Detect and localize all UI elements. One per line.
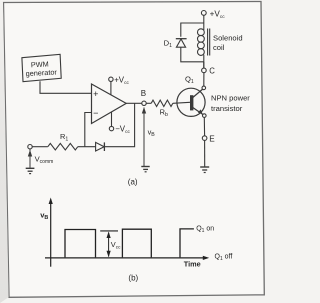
node E terminal [202, 134, 215, 143]
svg-text:Time: Time [184, 260, 201, 269]
solenoid coil L1 [198, 29, 210, 69]
svg-text:coil: coil [213, 43, 225, 52]
transistor Q1 NPN power transistor [177, 75, 206, 118]
ground (Vcomm) [26, 168, 35, 173]
wire node C to Q1 collector [203, 73, 205, 86]
op-amp -Vcc supply pin [109, 112, 130, 135]
wire coil bottom to node C [203, 62, 205, 68]
waveform square wave trace [65, 229, 194, 258]
diode D2 (feedback) [96, 142, 105, 151]
PWM generator block [22, 54, 61, 81]
wire Q1 emitter to node E [203, 117, 205, 135]
waveform time axis (horizontal) [45, 256, 209, 269]
svg-text:+: + [93, 89, 98, 99]
node B terminal [141, 89, 146, 106]
svg-text:C: C [209, 67, 215, 76]
resistor RB [151, 100, 173, 118]
resistor R1 [48, 132, 78, 150]
+Vcc supply terminal top right [201, 9, 225, 20]
NPN power transistor label [211, 94, 250, 113]
svg-text:transistor: transistor [211, 104, 243, 113]
svg-text:Solenoid: Solenoid [213, 33, 243, 42]
wire R1 to diode D2 with feedback tap [78, 146, 96, 148]
svg-text:(b): (b) [128, 273, 138, 282]
svg-text:E: E [209, 134, 215, 143]
Vcc amplitude dimension arrow [100, 231, 121, 257]
svg-text:NPN power: NPN power [211, 94, 250, 103]
wire node E to ground [204, 140, 206, 166]
ground (emitter) [200, 167, 209, 173]
wire diode D2 to op-amp output node [104, 103, 134, 146]
wire Vcomm to R1 [32, 146, 48, 148]
svg-text:(a): (a) [128, 177, 138, 186]
feedback wire to op-amp - input [85, 113, 92, 147]
wire node B to resistor RB [146, 102, 151, 104]
diode D1 (flyback) [164, 39, 187, 50]
vB arrow at node B [142, 107, 156, 166]
node C terminal [202, 67, 216, 76]
waveform vB axis (vertical) [40, 198, 53, 267]
wire junction to diode D1 top [181, 23, 204, 37]
op-amp +Vcc supply pin [109, 75, 130, 95]
svg-text:−: − [93, 108, 98, 118]
solenoid coil label [213, 33, 243, 52]
svg-text:generator: generator [25, 67, 57, 78]
wire op-amp output to node B [126, 102, 142, 104]
op-amp U1 (comparator) [92, 84, 127, 124]
wire diode D1 bottom to coil bottom [181, 47, 204, 62]
ground (vB arrow) [141, 167, 149, 172]
Vcomm source terminal [28, 145, 54, 168]
wire PWM output to op-amp + input [40, 81, 92, 93]
wire RB to transistor base [173, 102, 190, 103]
svg-text:B: B [141, 89, 146, 98]
wire +Vcc terminal down to junction [203, 15, 205, 30]
